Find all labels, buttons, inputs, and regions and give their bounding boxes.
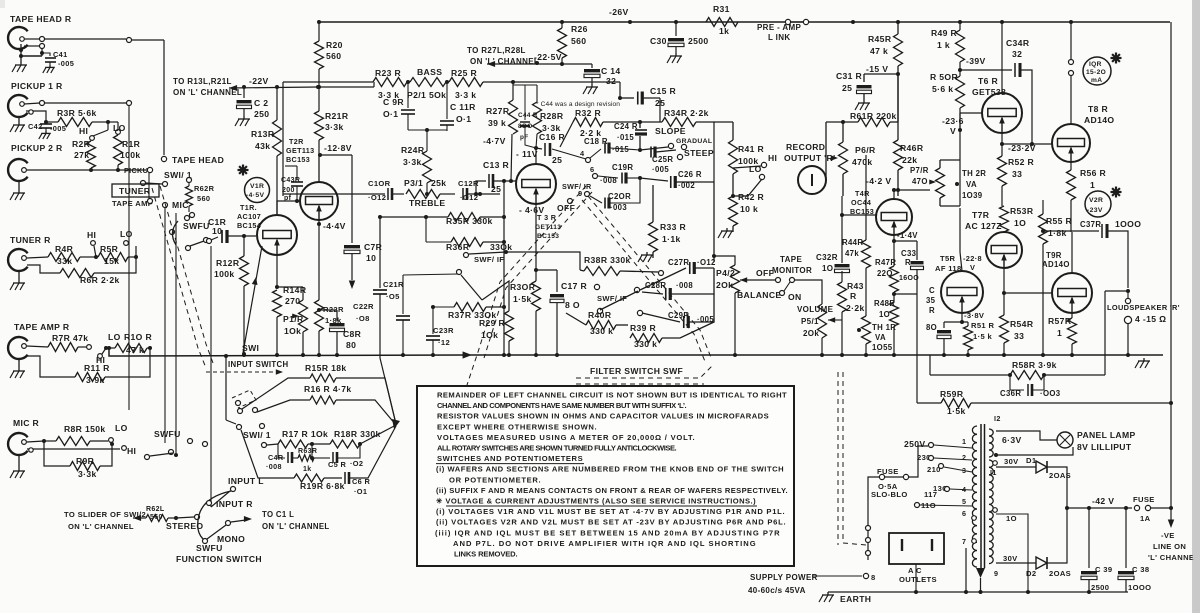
svg-text:1O55: 1O55 xyxy=(872,343,893,352)
svg-text:BC153: BC153 xyxy=(537,233,559,240)
svg-text:2·2k: 2·2k xyxy=(846,303,865,313)
svg-text:C29R: C29R xyxy=(668,311,689,320)
svg-text:T7R: T7R xyxy=(972,210,990,220)
svg-text:1Ok: 1Ok xyxy=(284,326,301,336)
svg-text:- 11V: - 11V xyxy=(516,149,538,159)
svg-text:C 2: C 2 xyxy=(254,98,268,108)
svg-text:R49 R: R49 R xyxy=(931,28,958,38)
svg-text:1: 1 xyxy=(962,437,966,446)
wire T4R base from C32R line xyxy=(841,196,843,263)
svg-text:R20: R20 xyxy=(326,40,343,50)
right rail from top xyxy=(1170,22,1172,508)
main bus right section xyxy=(470,354,1163,356)
wire T2R collector xyxy=(318,155,320,182)
svg-text:R39 R: R39 R xyxy=(630,323,657,333)
svg-text:C32R: C32R xyxy=(816,253,838,262)
wire R35R line xyxy=(380,216,448,218)
svg-text:OUTLETS: OUTLETS xyxy=(899,575,937,584)
svg-text:GET113: GET113 xyxy=(286,146,314,155)
contact INPUT R xyxy=(207,501,212,506)
svg-text:C28R: C28R xyxy=(645,281,666,290)
wire -22-5V rail xyxy=(487,61,495,67)
wire transformer frame to earth xyxy=(965,548,967,592)
svg-text:-22·8: -22·8 xyxy=(963,254,982,263)
svg-text:V1R: V1R xyxy=(250,183,264,190)
svg-text:D2: D2 xyxy=(1026,569,1036,578)
ground tuner jack xyxy=(18,271,20,280)
svg-text:OUTPUT 'R': OUTPUT 'R' xyxy=(784,153,836,163)
svg-text:250V: 250V xyxy=(904,439,925,449)
svg-text:R51 R: R51 R xyxy=(971,321,994,330)
svg-text:R: R xyxy=(905,258,911,267)
svg-text:R29 R: R29 R xyxy=(479,318,506,328)
svg-text:1·5k: 1·5k xyxy=(513,294,532,304)
wire vertical to wafer xyxy=(225,356,227,420)
svg-text:6: 6 xyxy=(590,165,594,174)
diagonal T1R grid wire xyxy=(243,246,262,353)
svg-text:8 O: 8 O xyxy=(565,300,580,310)
dashed gang line to mains switch xyxy=(837,372,839,545)
svg-text:FUNCTION SWITCH: FUNCTION SWITCH xyxy=(176,554,262,564)
svg-text:C33: C33 xyxy=(901,249,917,258)
wire bass line left xyxy=(282,82,284,196)
loudspeaker terminals xyxy=(1126,289,1130,293)
svg-text:A C: A C xyxy=(908,566,922,575)
svg-text:43k: 43k xyxy=(255,141,270,151)
svg-text:C8R: C8R xyxy=(343,329,362,339)
svg-text:9: 9 xyxy=(994,569,998,578)
svg-text:C 14: C 14 xyxy=(601,66,621,76)
wire node to HI LO contacts xyxy=(107,122,109,130)
svg-text:1OOO: 1OOO xyxy=(1115,219,1141,229)
svg-text:R5R: R5R xyxy=(100,244,119,254)
wire TO C1L arrow xyxy=(226,521,231,526)
svg-text:SUPPLY POWER: SUPPLY POWER xyxy=(750,573,818,582)
svg-text:R9R: R9R xyxy=(76,456,95,466)
svg-text:PICKUP 1 R: PICKUP 1 R xyxy=(11,81,63,91)
svg-text:47O: 47O xyxy=(912,177,928,186)
svg-text:L INK: L INK xyxy=(768,33,791,42)
wire -22V to tone stack xyxy=(318,86,374,88)
svg-text:MONITOR: MONITOR xyxy=(772,266,812,275)
wire tape head contacts xyxy=(24,38,40,40)
contact below R62R xyxy=(190,213,195,218)
svg-text:C34R: C34R xyxy=(1006,38,1030,48)
underline voltage adjustments xyxy=(446,505,757,507)
input jack PICKUP 2 R xyxy=(8,159,28,181)
svg-text:1·8k: 1·8k xyxy=(1048,228,1067,238)
svg-text:-3·8V: -3·8V xyxy=(964,311,985,320)
wire R36R line xyxy=(425,217,427,242)
wire pickup2 bus xyxy=(27,169,91,171)
svg-text:INPUT SWITCH: INPUT SWITCH xyxy=(228,360,289,369)
svg-text:(iii) IQR AND IQL MUST BE SET: (iii) IQR AND IQL MUST BE SET BETWEEN 15… xyxy=(435,528,780,537)
input jack TAPE AMP R xyxy=(8,337,28,359)
svg-text:✳ VOLTAGE & CURRENT ADJUSTMENT: ✳ VOLTAGE & CURRENT ADJUSTMENTS (ALSO SE… xyxy=(436,497,756,506)
svg-text:C16 R: C16 R xyxy=(539,132,566,142)
svg-text:R12R: R12R xyxy=(216,258,240,268)
svg-text:VOLTAGES MEASURED USING A METE: VOLTAGES MEASURED USING A METER OF 20,00… xyxy=(437,433,695,442)
svg-text:R45R: R45R xyxy=(868,34,892,44)
svg-text:R25 R: R25 R xyxy=(451,68,478,78)
svg-text:25: 25 xyxy=(552,155,562,165)
svg-text:-23V: -23V xyxy=(1087,207,1103,214)
wire T9R collector xyxy=(1071,232,1073,273)
svg-text:D1: D1 xyxy=(1026,456,1037,465)
svg-text:R11 R: R11 R xyxy=(84,363,110,373)
svg-text:5·6 k: 5·6 k xyxy=(932,84,953,94)
diode D2 20AS xyxy=(1036,557,1047,569)
svg-text:HI: HI xyxy=(768,153,777,163)
label MIC contact xyxy=(163,203,168,208)
wire T3R collector xyxy=(535,148,537,164)
svg-text:330 k: 330 k xyxy=(590,326,613,336)
svg-text:32: 32 xyxy=(1012,49,1022,59)
svg-text:4: 4 xyxy=(580,149,585,158)
svg-text:1·5k: 1·5k xyxy=(947,406,966,416)
svg-text:SWITCHES AND POTENTIOMETERS: SWITCHES AND POTENTIOMETERS xyxy=(437,454,583,463)
svg-text:R62L: R62L xyxy=(146,506,165,513)
svg-text:VOLUME: VOLUME xyxy=(797,305,834,314)
transistor T3R GET113 BC153 xyxy=(516,164,556,204)
svg-text:-4·4V: -4·4V xyxy=(323,221,346,231)
svg-text:3·3 k: 3·3 k xyxy=(455,90,476,100)
svg-text:10 k: 10 k xyxy=(740,204,758,214)
svg-text:C21R: C21R xyxy=(383,280,404,289)
dashed filter gang X xyxy=(452,186,586,430)
svg-text:R: R xyxy=(929,306,935,315)
svg-text:32: 32 xyxy=(606,76,616,86)
svg-text:(i) VOLTAGES V1R AND V1L MUST: (i) VOLTAGES V1R AND V1L MUST BE SET AT … xyxy=(436,507,785,516)
svg-text:1k: 1k xyxy=(719,26,729,36)
svg-text:OR POTENTIOMETER.: OR POTENTIOMETER. xyxy=(449,475,541,484)
svg-text:T9R: T9R xyxy=(1046,251,1062,260)
svg-text:-42 V: -42 V xyxy=(1092,496,1114,506)
svg-text:TO R13L,R21L: TO R13L,R21L xyxy=(173,77,232,86)
svg-text:C: C xyxy=(929,286,935,295)
mains switch contacts xyxy=(866,526,871,531)
AC outlets box xyxy=(889,533,944,564)
svg-text:7: 7 xyxy=(962,537,966,546)
svg-text:AC 127Z: AC 127Z xyxy=(965,221,1002,231)
svg-text:C 38: C 38 xyxy=(1132,565,1149,574)
wire C16R arm to contact 4 xyxy=(552,149,586,159)
svg-text:1k: 1k xyxy=(303,466,312,473)
switch PRE-AMP LINK xyxy=(785,19,790,24)
svg-text:(ii) VOLTAGES V2R AND V2L MUST: (ii) VOLTAGES V2R AND V2L MUST BE SET AT… xyxy=(436,518,786,527)
svg-text:200: 200 xyxy=(282,187,295,194)
svg-text:PRE - AMP: PRE - AMP xyxy=(757,23,802,32)
svg-text:·O5: ·O5 xyxy=(386,292,400,301)
svg-text:-005: -005 xyxy=(50,124,66,133)
contact MONO xyxy=(203,539,208,544)
svg-text:FILTER SWITCH SWF: FILTER SWITCH SWF xyxy=(590,366,683,376)
svg-text:T1R.: T1R. xyxy=(240,203,257,212)
svg-text:2: 2 xyxy=(962,453,966,462)
ground loudspeaker xyxy=(1105,290,1128,292)
wire T1R collector to T2R base xyxy=(277,201,300,215)
svg-text:·O2: ·O2 xyxy=(350,459,363,468)
svg-text:R17 R 1Ok: R17 R 1Ok xyxy=(282,429,328,439)
svg-text:3·3k: 3·3k xyxy=(325,122,344,132)
wire pickup1 lower contact xyxy=(26,111,46,118)
svg-text:R42 R: R42 R xyxy=(738,192,765,202)
svg-text:C1OR: C1OR xyxy=(368,179,391,188)
svg-text:C41: C41 xyxy=(53,50,68,59)
svg-text:AND P7L. DO NOT DRIVE AMPLIFIE: AND P7L. DO NOT DRIVE AMPLIFIER WITH IQR… xyxy=(453,539,756,548)
svg-text:CHANNEL AND COMPONENTS HAVE SA: CHANNEL AND COMPONENTS HAVE SAME NUMBER … xyxy=(437,401,687,410)
svg-text:-005: -005 xyxy=(58,59,74,68)
svg-text:C19R: C19R xyxy=(612,163,633,172)
svg-text:8V LILLIPUT: 8V LILLIPUT xyxy=(1077,442,1132,452)
svg-text:R56 R: R56 R xyxy=(1080,168,1107,178)
wire treble vertical down xyxy=(503,181,505,355)
node mixing point xyxy=(392,419,400,429)
wire switch column verticals xyxy=(128,106,130,410)
svg-text:C24 R: C24 R xyxy=(614,122,638,131)
svg-text:8O: 8O xyxy=(926,323,937,332)
dashed filter switch box xyxy=(576,366,712,378)
main bus SWI xyxy=(109,348,466,356)
svg-text:10: 10 xyxy=(212,226,222,236)
wire monitor to volume xyxy=(795,280,822,304)
transformer secondary 6-3V winding xyxy=(989,429,993,436)
svg-text:R32 R: R32 R xyxy=(575,108,602,118)
meter IQR circle xyxy=(1111,57,1122,59)
svg-text:117: 117 xyxy=(924,490,937,499)
transformer secondary main winding xyxy=(989,460,993,467)
svg-text:R18R 330k: R18R 330k xyxy=(334,429,381,439)
svg-text:GET113: GET113 xyxy=(535,224,561,231)
svg-text:2Ok: 2Ok xyxy=(803,329,819,338)
svg-text:25k: 25k xyxy=(431,178,446,188)
svg-text:47k: 47k xyxy=(845,249,859,258)
capacitor C2 250 xyxy=(243,87,245,98)
svg-text:P3/1: P3/1 xyxy=(404,178,423,188)
svg-text:ON 'L' CHANNEL: ON 'L' CHANNEL xyxy=(470,57,539,66)
earth bus xyxy=(828,591,1128,593)
svg-text:V: V xyxy=(950,126,956,136)
svg-text:C30: C30 xyxy=(650,36,667,46)
svg-text:-4·7V: -4·7V xyxy=(483,136,506,146)
svg-text:2500: 2500 xyxy=(688,36,709,46)
svg-text:LO: LO xyxy=(120,229,133,239)
wire R44R top xyxy=(865,155,867,240)
svg-text:-39V: -39V xyxy=(966,56,986,66)
ground pickup1 xyxy=(18,117,20,122)
svg-text:SLO-BLO: SLO-BLO xyxy=(871,490,908,499)
svg-text:R15R 18k: R15R 18k xyxy=(305,363,347,373)
svg-text:25: 25 xyxy=(842,83,852,93)
svg-text:4 -15 Ω: 4 -15 Ω xyxy=(1135,314,1166,324)
svg-text:R6R 2·2k: R6R 2·2k xyxy=(80,275,120,285)
input jack TAPE HEAD R xyxy=(8,27,28,49)
svg-text:R1O R: R1O R xyxy=(124,332,152,342)
svg-text:·O12: ·O12 xyxy=(697,258,716,267)
svg-text:30V: 30V xyxy=(1003,554,1018,563)
svg-text:100k: 100k xyxy=(120,150,141,160)
svg-text:T4R: T4R xyxy=(855,189,870,198)
svg-text:16OO: 16OO xyxy=(899,275,919,282)
svg-text:560: 560 xyxy=(326,51,341,61)
switch tape monitor OFF xyxy=(740,277,747,282)
svg-text:47 k: 47 k xyxy=(870,46,888,56)
svg-text:560: 560 xyxy=(197,194,210,203)
svg-text:C 11R: C 11R xyxy=(450,102,476,112)
wire T5R collector xyxy=(959,208,961,252)
contact INPUT L xyxy=(231,487,236,492)
dashed wafer gang mark xyxy=(232,390,256,408)
svg-text:C15 R: C15 R xyxy=(650,86,677,96)
capacitor C41 -005 xyxy=(42,53,50,56)
svg-text:R63R: R63R xyxy=(298,448,317,455)
function switch arc xyxy=(198,491,231,539)
svg-text:T8 R: T8 R xyxy=(1088,104,1108,114)
svg-text:10: 10 xyxy=(366,253,376,263)
svg-text:SWF/ IF: SWF/ IF xyxy=(474,255,504,264)
svg-text:·005: ·005 xyxy=(652,165,669,174)
svg-text:ON 'L' CHANNEL: ON 'L' CHANNEL xyxy=(68,522,134,531)
svg-text:LINKS REMOVED.: LINKS REMOVED. xyxy=(454,550,518,559)
svg-text:R46R: R46R xyxy=(900,143,924,153)
svg-text:TO C1 L: TO C1 L xyxy=(262,510,294,519)
svg-text:30V: 30V xyxy=(1004,457,1019,466)
svg-text:R55 R: R55 R xyxy=(1046,216,1073,226)
svg-text:P7/R: P7/R xyxy=(910,166,929,175)
svg-text:R3R 5·6k: R3R 5·6k xyxy=(57,108,97,118)
svg-text:OC44: OC44 xyxy=(851,198,871,207)
svg-text:·O8: ·O8 xyxy=(356,314,370,323)
svg-text:R26: R26 xyxy=(571,24,588,34)
svg-text:TAPE: TAPE xyxy=(780,255,802,264)
svg-text:(ii) SUFFIX F AND R MEANS CONT: (ii) SUFFIX F AND R MEANS CONTACTS ON FR… xyxy=(436,486,788,495)
svg-text:-22·5V: -22·5V xyxy=(534,52,562,62)
svg-text:5: 5 xyxy=(962,497,966,506)
svg-text:V2R: V2R xyxy=(1089,197,1103,204)
switch SWI/1 wafer contacts xyxy=(236,401,241,406)
diode D1 20AS xyxy=(1036,461,1047,473)
svg-text:LINE ON: LINE ON xyxy=(1153,542,1186,551)
svg-text:R8R 150k: R8R 150k xyxy=(64,424,106,434)
svg-text:R43: R43 xyxy=(847,281,864,291)
svg-text:-4·5V: -4·5V xyxy=(246,192,264,199)
svg-text:·008: ·008 xyxy=(266,462,282,471)
svg-text:1 k: 1 k xyxy=(937,40,950,50)
svg-text:BASS: BASS xyxy=(417,67,442,77)
svg-text:ON 'L' CHANNEL: ON 'L' CHANNEL xyxy=(173,88,242,97)
svg-text:T 3 R: T 3 R xyxy=(537,213,557,222)
svg-text:RESISTOR VALUES SHOWN IN OHMS: RESISTOR VALUES SHOWN IN OHMS AND CAPACI… xyxy=(437,412,769,421)
svg-text:SWI/ 1: SWI/ 1 xyxy=(243,430,271,440)
svg-text:* C44 was a design revision: * C44 was a design revision xyxy=(536,101,620,108)
ground tape amp jack xyxy=(18,359,20,368)
wire T1R emitter down xyxy=(276,255,278,287)
svg-text:·003: ·003 xyxy=(610,203,627,212)
svg-text:-12·8V: -12·8V xyxy=(324,143,352,153)
svg-text:HI: HI xyxy=(87,230,96,240)
svg-text:80: 80 xyxy=(346,340,356,350)
svg-text:33: 33 xyxy=(1014,331,1024,341)
svg-text:HI: HI xyxy=(79,126,88,136)
svg-text:PANEL LAMP: PANEL LAMP xyxy=(1077,430,1136,440)
svg-text:ALL ROTARY SWITCHES ARE SHOWN: ALL ROTARY SWITCHES ARE SHOWN TURNED FUL… xyxy=(437,444,677,453)
wire record out to monitor xyxy=(825,122,827,180)
svg-text:1·1k: 1·1k xyxy=(662,234,681,244)
svg-text:LO: LO xyxy=(113,123,126,133)
arrow -VE line xyxy=(1170,508,1172,521)
svg-text:INPUT R: INPUT R xyxy=(216,499,253,509)
svg-text:33Ok: 33Ok xyxy=(490,242,512,252)
svg-text:P5/1: P5/1 xyxy=(801,317,819,326)
svg-text:REMAINDER OF LEFT CHANNEL CIRC: REMAINDER OF LEFT CHANNEL CIRCUIT IS NOT… xyxy=(437,391,787,400)
ground tape head jack xyxy=(20,56,22,62)
svg-text:470k: 470k xyxy=(852,157,873,167)
svg-text:HI: HI xyxy=(127,446,136,456)
svg-text:·O1: ·O1 xyxy=(354,487,367,496)
svg-text:TO R27L,R28L: TO R27L,R28L xyxy=(467,46,526,55)
svg-text:C13 R: C13 R xyxy=(483,160,510,170)
svg-text:R54R: R54R xyxy=(1010,319,1034,329)
svg-text:R31: R31 xyxy=(713,4,730,14)
svg-text:ON 'L' CHANNEL: ON 'L' CHANNEL xyxy=(262,522,330,531)
svg-text:1: 1 xyxy=(1090,180,1095,190)
switch slope contacts xyxy=(668,143,673,148)
svg-text:R38R 330k: R38R 330k xyxy=(584,255,631,265)
svg-text:250: 250 xyxy=(254,109,269,119)
svg-text:22k: 22k xyxy=(902,155,917,165)
svg-text:ON: ON xyxy=(788,292,802,302)
wire T6R base xyxy=(959,113,961,130)
wire lamp loop xyxy=(996,431,1057,440)
svg-text:R41 R: R41 R xyxy=(738,144,765,154)
svg-text:SWI: SWI xyxy=(242,343,259,353)
svg-text:R4R: R4R xyxy=(55,244,74,254)
transformer primary winding xyxy=(972,426,977,434)
wire node to C7R xyxy=(320,154,352,156)
svg-text:mA: mA xyxy=(1091,77,1102,84)
label TUNER box xyxy=(112,184,159,197)
svg-text:R16 R 4·7k: R16 R 4·7k xyxy=(304,384,351,394)
svg-text:-22V: -22V xyxy=(249,76,269,86)
svg-text:C 39: C 39 xyxy=(1095,565,1112,574)
svg-text:TO SLIDER OF SWI/2: TO SLIDER OF SWI/2 xyxy=(64,510,146,519)
svg-text:R1R: R1R xyxy=(122,139,141,149)
wire R35R to filter top xyxy=(618,96,622,100)
svg-text:TH 2R: TH 2R xyxy=(962,169,986,178)
svg-text:-1·4V: -1·4V xyxy=(897,231,918,240)
svg-text:V: V xyxy=(970,263,975,272)
wire tape head to switch xyxy=(44,38,126,40)
panel lamp 8V lilliput xyxy=(1057,432,1073,448)
svg-text:AD14O: AD14O xyxy=(1042,260,1070,269)
svg-text:R33 R: R33 R xyxy=(660,222,687,232)
svg-text:1A: 1A xyxy=(1140,514,1151,523)
svg-text:·015: ·015 xyxy=(617,133,634,142)
svg-text:pF: pF xyxy=(520,134,529,141)
ground mic jack xyxy=(18,455,20,468)
svg-text:C44 R: C44 R xyxy=(518,112,538,119)
svg-text:TAPE HEAD R: TAPE HEAD R xyxy=(10,14,72,24)
dashed gang line SWI1 to SWI2 xyxy=(152,188,206,368)
svg-text:1·5 k: 1·5 k xyxy=(973,332,992,341)
svg-text:R40R: R40R xyxy=(588,310,612,320)
svg-text:-VE: -VE xyxy=(1161,531,1175,540)
svg-text:2OAS: 2OAS xyxy=(1049,569,1071,578)
svg-text:-4·2 V: -4·2 V xyxy=(866,176,892,186)
svg-text:TUNER R: TUNER R xyxy=(10,235,51,245)
wire T6R collector to rail xyxy=(1001,22,1003,93)
input jack PICKUP 1 R xyxy=(8,95,28,117)
